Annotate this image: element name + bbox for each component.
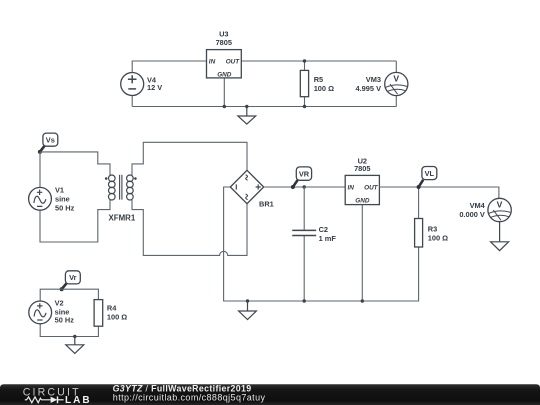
svg-text:R3: R3	[428, 224, 437, 233]
ground below VM4	[491, 222, 509, 251]
voltage source V1	[29, 187, 52, 210]
wire U3 GND stub	[223, 78, 225, 107]
node junction ground top rail	[245, 105, 248, 108]
CircuitLab logo resistor-diode art	[25, 396, 64, 403]
wire V1 bottom to XFMR1 primary bottom	[40, 200, 110, 242]
node junction bottom rail ground	[246, 299, 249, 302]
wire V2 top rail	[40, 289, 98, 301]
svg-text:C2: C2	[319, 225, 328, 234]
footer title text	[113, 384, 252, 394]
svg-text:IN: IN	[348, 185, 355, 192]
svg-text:1 mF: 1 mF	[319, 234, 337, 243]
svg-text:Vs: Vs	[46, 135, 55, 144]
wire U2 GND stub	[361, 205, 363, 301]
wire V4 bottom stub	[131, 96, 133, 107]
wire U3 OUT to VM3 top	[241, 60, 396, 62]
resistor R4	[94, 300, 127, 327]
wire C2 bottom stub	[303, 236, 305, 301]
svg-text:Vr: Vr	[69, 273, 77, 282]
wire BR1 right to U2 IN	[264, 186, 346, 188]
bridge rectifier BR1	[230, 170, 263, 203]
wire R5 bottom stub	[304, 97, 306, 107]
capacitor C2	[292, 230, 316, 235]
svg-text:7805: 7805	[216, 38, 232, 47]
svg-text:100 Ω: 100 Ω	[428, 233, 448, 242]
op-amp U3 (7805 regulator box)	[207, 29, 242, 78]
wire V1 top stub	[39, 152, 41, 188]
flag Vs	[38, 133, 58, 154]
svg-text:http://circuitlab.com/c888qj5q: http://circuitlab.com/c888qj5q7atuy	[113, 392, 266, 402]
wire U2 OUT to VM4	[379, 187, 499, 198]
wire C2 top stub	[303, 187, 305, 230]
svg-text:VM4: VM4	[470, 201, 486, 210]
svg-text:LAB: LAB	[65, 395, 92, 405]
voltage source V2	[29, 301, 52, 324]
svg-text:VR: VR	[299, 169, 310, 178]
svg-text:OUT: OUT	[364, 185, 379, 192]
svg-text:GND: GND	[355, 197, 370, 204]
transformer XFMR1	[105, 175, 137, 200]
svg-text:7805: 7805	[354, 164, 370, 173]
svg-text:12 V: 12 V	[147, 83, 162, 92]
wire VM3 top stub	[395, 61, 397, 72]
node junction U2 GND bottom	[361, 299, 364, 302]
svg-text:100 Ω: 100 Ω	[314, 84, 334, 93]
flag VR	[291, 167, 312, 189]
wire R5 top stub	[304, 61, 306, 70]
flag VL	[417, 167, 437, 190]
node junction C2 top	[303, 185, 306, 188]
svg-text:100 Ω: 100 Ω	[107, 313, 127, 322]
resistor R3	[415, 219, 449, 248]
svg-text:50 Hz: 50 Hz	[55, 315, 75, 324]
svg-text:OUT: OUT	[226, 59, 241, 66]
op-amp U2 (7805 regulator box)	[345, 157, 379, 205]
svg-text:U3: U3	[219, 29, 228, 38]
svg-text:GND: GND	[217, 72, 232, 79]
wire V1 top to XFMR1 primary top	[40, 152, 110, 176]
wire VM3 bottom stub	[395, 96, 397, 107]
wire top circuit bottom rail	[132, 106, 396, 108]
wire V2 bottom rail	[40, 324, 98, 337]
svg-text:V1: V1	[55, 186, 64, 195]
CircuitLab logo LAB text	[65, 395, 92, 405]
svg-text:V: V	[393, 73, 399, 83]
svg-text:IN: IN	[209, 59, 216, 66]
svg-text:BR1: BR1	[259, 200, 274, 209]
wire BR1 left to bottom rail to R3 bottom	[224, 187, 419, 301]
ground bottom rail	[239, 301, 257, 320]
wire V4 top to U3 IN	[132, 61, 206, 72]
node junction R5 bottom	[303, 105, 306, 108]
flag Vr	[60, 271, 81, 291]
svg-text:sine: sine	[55, 194, 70, 203]
node junction U3 GND rail	[223, 105, 226, 108]
wire XFMR1 secondary top to BR1 top	[132, 142, 247, 176]
svg-text:VM3: VM3	[366, 75, 381, 84]
footer bar	[0, 384, 540, 405]
svg-text:R4: R4	[107, 304, 117, 313]
svg-text:0.000 V: 0.000 V	[459, 210, 485, 219]
CircuitLab logo text	[23, 386, 81, 398]
svg-text:V: V	[497, 199, 503, 209]
svg-text:R5: R5	[314, 75, 323, 84]
svg-text:VL: VL	[425, 169, 435, 178]
node junction C2 bottom	[303, 299, 306, 302]
resistor R5	[300, 70, 334, 96]
ground below V2	[66, 337, 84, 354]
voltmeter VM3	[385, 72, 408, 95]
ground top circuit	[238, 107, 256, 125]
svg-text:50 Hz: 50 Hz	[55, 203, 75, 212]
voltage source V4	[121, 73, 144, 96]
wire R3 top stub	[418, 187, 420, 219]
svg-text:XFMR1: XFMR1	[109, 214, 136, 223]
node junction R5 top	[303, 59, 306, 62]
svg-text:V2: V2	[55, 299, 64, 308]
footer url text	[113, 392, 266, 402]
voltmeter VM4	[488, 198, 511, 221]
svg-text:4.995 V: 4.995 V	[356, 84, 382, 93]
wire XFMR1 secondary bottom to BR1 bottom (with hop)	[132, 200, 247, 255]
node junction V2 ground	[73, 335, 76, 338]
